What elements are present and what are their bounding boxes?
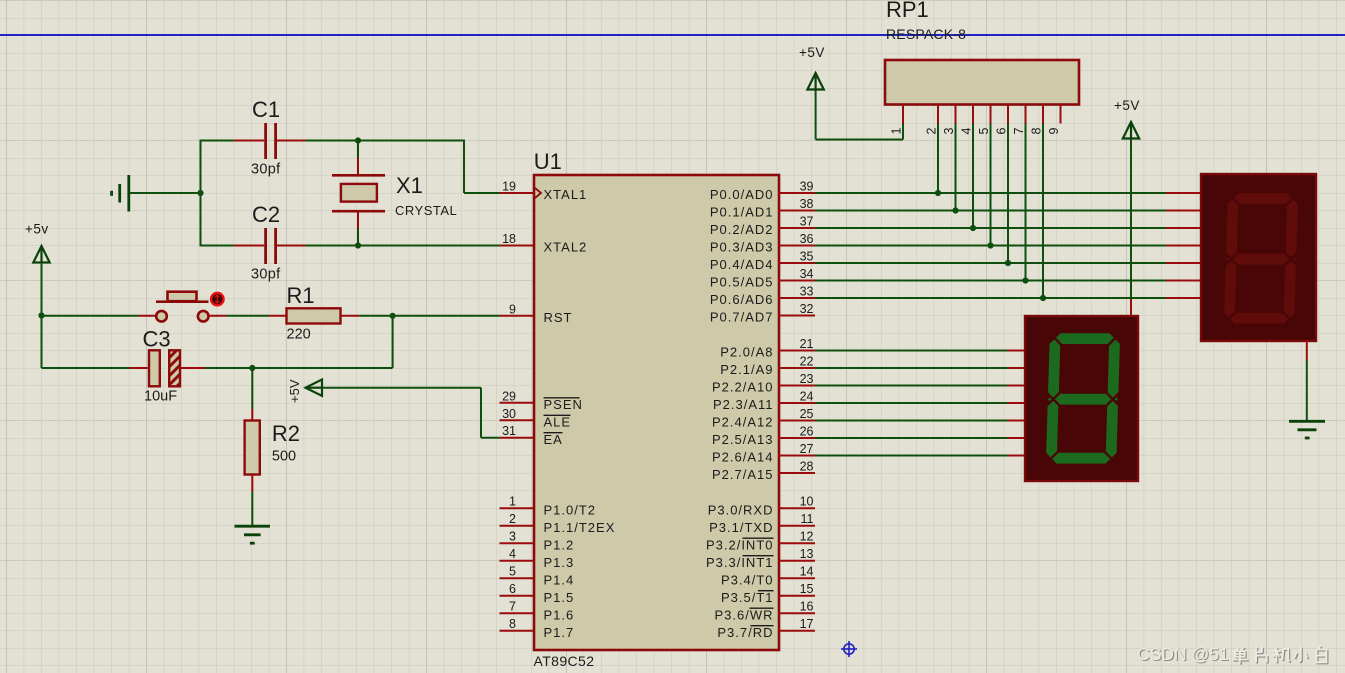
pin 31 EA	[500, 437, 535, 439]
wire P2.3 to 7-seg display 2	[815, 402, 1008, 404]
wire to C3/R2 node	[252, 367, 392, 369]
wire +5V to elbow	[322, 387, 481, 389]
wire C1 to corner	[306, 140, 465, 142]
svg-text:220: 220	[287, 327, 311, 343]
svg-text:29: 29	[502, 389, 516, 403]
svg-text:R1: R1	[287, 283, 315, 308]
svg-text:R2: R2	[272, 421, 300, 446]
svg-text:P3.0/RXD: P3.0/RXD	[708, 502, 774, 517]
svg-text:32: 32	[800, 302, 814, 316]
svg-text:P0.7/AD7: P0.7/AD7	[710, 310, 774, 325]
svg-text:5: 5	[509, 565, 516, 579]
wire P2.6 to 7-seg display 2	[815, 455, 1008, 457]
capacitor C3	[129, 367, 148, 369]
sheet border line	[0, 34, 1345, 36]
svg-text:P1.6: P1.6	[544, 607, 575, 622]
svg-text:P1.0/T2: P1.0/T2	[544, 502, 597, 517]
svg-text:P2.1/A9: P2.1/A9	[720, 362, 773, 377]
svg-text:P3.2/INT0: P3.2/INT0	[706, 537, 774, 552]
wire to EA pin	[481, 437, 500, 439]
pin 37 P0.2/AD2	[779, 227, 815, 229]
svg-text:+5V: +5V	[287, 379, 302, 403]
svg-text:P3.1/TXD: P3.1/TXD	[709, 520, 773, 535]
power +5V arrow (display)	[1123, 122, 1139, 139]
svg-text:11: 11	[801, 512, 814, 526]
svg-text:6: 6	[509, 582, 516, 596]
pin 10 P3.0/RXD	[779, 507, 815, 509]
svg-text:31: 31	[502, 424, 516, 438]
ground (display 1)	[1289, 421, 1325, 438]
pin 15 P3.5/T1	[779, 595, 815, 597]
wire +5v down	[41, 263, 43, 316]
wire corner down to XTAL1 row	[463, 140, 465, 194]
junction R1/RST	[390, 313, 396, 319]
wire C2 to XTAL2 pin	[306, 245, 500, 247]
wire P0.0 to 7-seg display 1	[815, 192, 1166, 194]
wire R1 to RST node	[359, 315, 392, 317]
wire P0.5 to 7-seg display 1	[815, 280, 1166, 282]
svg-text:16: 16	[800, 600, 814, 614]
wire +5v node to switch	[42, 315, 139, 317]
svg-text:+5V: +5V	[799, 45, 825, 60]
svg-text:9: 9	[509, 302, 516, 316]
svg-text:P3.3/INT1: P3.3/INT1	[706, 555, 774, 570]
svg-text:P1.3: P1.3	[544, 555, 575, 570]
pin 14 P3.4/T0	[779, 577, 815, 579]
wire switch to R1 lead	[209, 315, 226, 317]
wire P0.6 to 7-seg display 1	[815, 297, 1166, 299]
svg-text:18: 18	[502, 232, 516, 246]
7-seg display 2 segments	[1039, 327, 1126, 471]
pin 4 P1.3	[500, 560, 535, 562]
pin 21 P2.0/A8	[779, 350, 815, 352]
wire RP1 pin1 to +5V	[902, 124, 904, 140]
svg-text:P1.1/T2EX: P1.1/T2EX	[544, 520, 616, 535]
wire P0.4 to 7-seg display 1	[815, 262, 1166, 264]
junction C3/R2	[249, 365, 255, 371]
svg-text:P2.2/A10: P2.2/A10	[712, 380, 774, 395]
svg-text:3: 3	[509, 530, 516, 544]
wire elbow down	[480, 388, 482, 438]
wire RP1 pin 4 to P0.2	[972, 124, 974, 229]
pin 35 P0.4/AD4	[779, 262, 815, 264]
resistor R1	[269, 315, 286, 317]
svg-text:RESPACK-8: RESPACK-8	[886, 26, 966, 42]
pin 25 P2.4/A12	[779, 420, 815, 422]
svg-text:P1.5: P1.5	[544, 590, 575, 605]
svg-text:21: 21	[800, 337, 814, 351]
svg-text:26: 26	[800, 425, 814, 439]
svg-text:10: 10	[800, 495, 814, 509]
power +5V arrow (EA)	[306, 380, 323, 396]
svg-text:1: 1	[509, 495, 516, 509]
svg-text:CRYSTAL: CRYSTAL	[395, 203, 457, 218]
pin 5 P1.4	[500, 577, 535, 579]
wire +5V down to display 2	[1130, 139, 1132, 300]
svg-text:P0.1/AD1: P0.1/AD1	[710, 205, 774, 220]
junction X1 top	[355, 137, 361, 143]
wire P0.1 to 7-seg display 1	[815, 210, 1166, 212]
svg-text:8: 8	[1030, 128, 1044, 135]
origin marker	[841, 641, 857, 657]
svg-text:27: 27	[800, 442, 814, 456]
svg-text:28: 28	[800, 460, 814, 474]
svg-text:C2: C2	[252, 202, 280, 227]
RP1 pin 8 stub	[1042, 105, 1044, 124]
svg-text:P0.4/AD4: P0.4/AD4	[710, 257, 774, 272]
junction ground/C1-C2 branch	[197, 190, 203, 196]
wire RP1 pin 5 to P0.3	[990, 124, 992, 246]
resistor R2	[251, 368, 253, 409]
svg-text:4: 4	[509, 547, 516, 561]
svg-text:P1.4: P1.4	[544, 572, 575, 587]
wire C3 row left	[42, 367, 130, 369]
svg-text:RP1: RP1	[886, 0, 929, 22]
RP1 pin 2 stub	[937, 105, 939, 124]
svg-text:8: 8	[509, 617, 516, 631]
pin 39 P0.0/AD0	[779, 192, 815, 194]
svg-text:2: 2	[925, 128, 939, 135]
svg-text:30pf: 30pf	[251, 267, 281, 283]
svg-text:10uF: 10uF	[144, 389, 177, 405]
wire to RST pin	[393, 315, 500, 317]
svg-text:30pf: 30pf	[251, 162, 281, 178]
pin 1 P1.0/T2	[500, 507, 535, 509]
svg-text:XTAL2: XTAL2	[544, 240, 588, 255]
7-seg display 2 (green) body	[1025, 316, 1138, 481]
svg-text:P0.2/AD2: P0.2/AD2	[710, 222, 774, 237]
svg-text:PSEN: PSEN	[544, 397, 583, 412]
op-amp U1 body (AT89C52 microcontroller)	[534, 175, 779, 650]
svg-text:17: 17	[800, 617, 814, 631]
svg-text:P1.7: P1.7	[544, 625, 575, 640]
capacitor C2	[201, 245, 234, 247]
svg-text:14: 14	[800, 565, 814, 579]
svg-text:P0.0/AD0: P0.0/AD0	[710, 187, 774, 202]
svg-text:P3.6/WR: P3.6/WR	[714, 607, 773, 622]
pin 19 XTAL1	[500, 192, 535, 194]
svg-text:12: 12	[800, 530, 814, 544]
pin 34 P0.5/AD5	[779, 280, 815, 282]
resistor pack RP1 body	[885, 60, 1079, 105]
RP1 pin 6 stub	[1007, 105, 1009, 124]
wire ground to node	[130, 192, 201, 194]
pin 18 XTAL2	[500, 245, 535, 247]
svg-text:P2.0/A8: P2.0/A8	[720, 345, 773, 360]
wire P0.2 to 7-seg display 1	[815, 227, 1166, 229]
svg-text:3: 3	[942, 128, 956, 135]
svg-text:CSDN @51: CSDN @51	[1137, 644, 1229, 664]
svg-text:P2.4/A12: P2.4/A12	[712, 415, 774, 430]
pin 3 P1.2	[500, 542, 535, 544]
pin 2 P1.1/T2EX	[500, 525, 535, 527]
RP1 pin 5 stub	[990, 105, 992, 124]
svg-text:X1: X1	[396, 173, 423, 198]
pin 32 P0.7/AD7	[779, 315, 815, 317]
pin 27 P2.6/A14	[779, 455, 815, 457]
svg-text:25: 25	[800, 407, 814, 421]
svg-text:4: 4	[960, 128, 974, 135]
wire P2.2 to 7-seg display 2	[815, 385, 1008, 387]
wire P2.5 to 7-seg display 2	[815, 437, 1008, 439]
pin 12 P3.2/INT0	[779, 542, 815, 544]
junction X1 bottom	[355, 242, 361, 248]
pin 9 RST	[500, 315, 535, 317]
svg-text:XTAL1: XTAL1	[544, 187, 588, 202]
svg-text:P2.7/A15: P2.7/A15	[712, 467, 774, 482]
wire RP1 pin 8 to P0.6	[1042, 124, 1044, 299]
svg-text:15: 15	[800, 582, 814, 596]
svg-text:9: 9	[1047, 128, 1061, 135]
svg-text:500: 500	[272, 449, 296, 465]
svg-text:35: 35	[800, 250, 814, 264]
7-seg display 1 (red) body	[1201, 174, 1316, 341]
pin 6 P1.5	[500, 595, 535, 597]
wire down from RST node	[392, 316, 394, 368]
svg-text:24: 24	[800, 390, 814, 404]
display 1 common pin to ground	[1306, 341, 1308, 361]
RP1 pin 7 stub	[1025, 105, 1027, 124]
svg-text:RST: RST	[544, 310, 573, 325]
capacitor C1	[201, 140, 234, 142]
svg-text:1: 1	[890, 128, 904, 135]
svg-text:P3.7/RD: P3.7/RD	[717, 625, 773, 640]
wire P2.0 to 7-seg display 2	[815, 350, 1008, 352]
svg-text:38: 38	[800, 197, 814, 211]
svg-text:2: 2	[509, 512, 516, 526]
svg-text:+5v: +5v	[25, 222, 49, 237]
power +5v arrow	[33, 246, 49, 263]
svg-text:37: 37	[800, 215, 814, 229]
wire vertical C1-C2 left branch	[200, 140, 202, 247]
svg-text:39: 39	[800, 180, 814, 194]
pin 7 P1.6	[500, 612, 535, 614]
pin 23 P2.2/A10	[779, 385, 815, 387]
svg-text:22: 22	[800, 355, 814, 369]
ground (oscillator)	[112, 175, 129, 212]
pin 22 P2.1/A9	[779, 367, 815, 369]
RP1 pin 9 stub	[1060, 105, 1062, 124]
RP1 pin 3 stub	[955, 105, 957, 124]
button actuator (red)	[211, 293, 224, 306]
svg-text:33: 33	[800, 285, 814, 299]
wire RP1 pin 3 to P0.1	[955, 124, 957, 211]
pin 8 P1.7	[500, 630, 535, 632]
svg-text:P0.3/AD3: P0.3/AD3	[710, 240, 774, 255]
pin 33 P0.6/AD6	[779, 297, 815, 299]
pin 11 P3.1/TXD	[779, 525, 815, 527]
svg-text:P3.5/T1: P3.5/T1	[721, 590, 774, 605]
svg-text:36: 36	[800, 232, 814, 246]
svg-text:7: 7	[1012, 128, 1026, 135]
pin 29 PSEN	[500, 402, 535, 404]
push button switch	[139, 315, 157, 317]
svg-text:C3: C3	[143, 327, 171, 352]
wire RP1 pin 7 to P0.5	[1025, 124, 1027, 281]
svg-text:P2.5/A13: P2.5/A13	[712, 432, 774, 447]
pin 38 P0.1/AD1	[779, 210, 815, 212]
svg-text:34: 34	[800, 267, 814, 281]
RP1 pin 4 stub	[972, 105, 974, 124]
svg-text:P0.5/AD5: P0.5/AD5	[710, 275, 774, 290]
svg-text:7: 7	[509, 600, 516, 614]
pin 13 P3.3/INT1	[779, 560, 815, 562]
svg-text:P3.4/T0: P3.4/T0	[721, 572, 774, 587]
svg-text:+5V: +5V	[1114, 98, 1140, 113]
ground (below R2)	[235, 526, 271, 543]
7-seg display 1 segments	[1217, 187, 1304, 331]
svg-text:C1: C1	[252, 97, 280, 122]
pin 36 P0.3/AD3	[779, 245, 815, 247]
watermark CSDN @51单片机小白	[1138, 645, 1327, 665]
svg-text:6: 6	[995, 128, 1009, 135]
svg-text:5: 5	[977, 128, 991, 135]
junction +5v / reset row	[38, 312, 44, 318]
wire RP1 pin 2 to P0.0	[937, 124, 939, 194]
pin 16 P3.6/WR	[779, 612, 815, 614]
svg-text:P2.6/A14: P2.6/A14	[712, 450, 774, 465]
pin 26 P2.5/A13	[779, 437, 815, 439]
svg-text:AT89C52: AT89C52	[534, 653, 595, 669]
svg-text:P2.3/A11: P2.3/A11	[713, 397, 774, 412]
svg-text:23: 23	[800, 372, 814, 386]
pin 17 P3.7/RD	[779, 630, 815, 632]
RP1 pin 1 stub	[902, 105, 904, 124]
wire P2.1 to 7-seg display 2	[815, 367, 1008, 369]
wire RP1 pin 6 to P0.4	[1007, 124, 1009, 264]
wire P0.3 to 7-seg display 1	[815, 245, 1166, 247]
svg-text:13: 13	[800, 547, 814, 561]
wire down to C3 row	[41, 316, 43, 369]
power +5V arrow (RP1)	[807, 73, 823, 90]
pin 28 P2.7/A15	[779, 472, 815, 474]
svg-text:P0.6/AD6: P0.6/AD6	[710, 292, 774, 307]
wire P2.4 to 7-seg display 2	[815, 420, 1008, 422]
svg-text:19: 19	[502, 180, 516, 194]
svg-text:P1.2: P1.2	[544, 537, 575, 552]
display 2 top pin stub	[1130, 299, 1132, 316]
pin 24 P2.3/A11	[779, 402, 815, 404]
svg-text:U1: U1	[534, 149, 562, 174]
svg-text:EA: EA	[544, 432, 563, 447]
pin 30 ALE	[500, 419, 535, 421]
wire to XTAL1 pin	[464, 192, 500, 194]
svg-text:30: 30	[502, 407, 516, 421]
svg-text:ALE: ALE	[544, 415, 572, 430]
